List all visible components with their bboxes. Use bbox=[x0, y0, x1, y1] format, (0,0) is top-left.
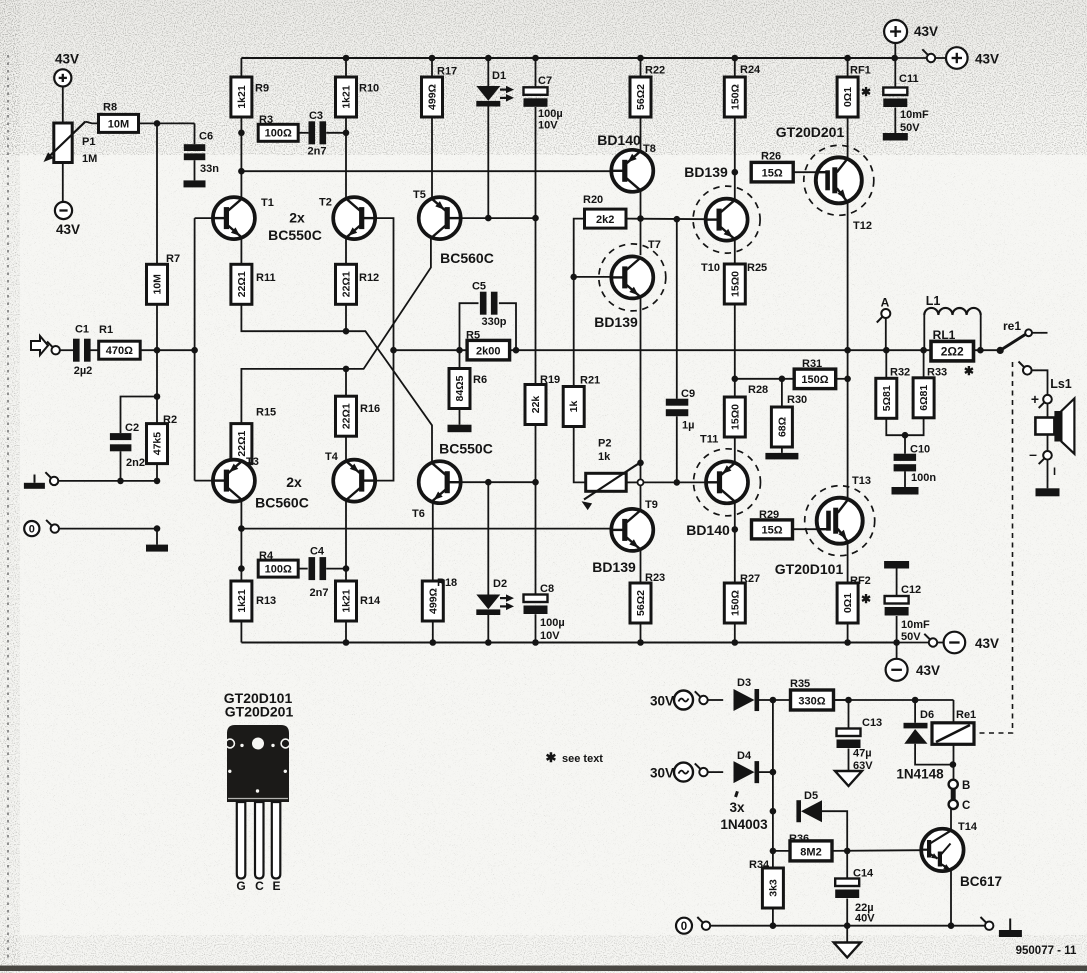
junction R26 left bbox=[732, 169, 739, 176]
connector Ls1 plus bbox=[1039, 395, 1052, 408]
svg-text:T1: T1 bbox=[261, 197, 274, 209]
wire rail to -43V connector bbox=[897, 642, 929, 644]
junction D1 T5 base bbox=[485, 215, 492, 222]
svg-text:R2: R2 bbox=[163, 414, 177, 426]
wire feedback row left bbox=[394, 349, 468, 351]
connector test point A bbox=[877, 309, 891, 323]
junction rail R17 bbox=[429, 55, 436, 62]
junction C8 rail bbox=[532, 639, 539, 646]
wire R29 to T13 gate bbox=[793, 528, 818, 530]
svg-text:BD140: BD140 bbox=[686, 522, 730, 538]
resistor R35 bbox=[791, 690, 834, 710]
svg-text:150Ω: 150Ω bbox=[729, 84, 741, 110]
svg-text:+: + bbox=[1031, 391, 1039, 407]
wire rail to RF1 bbox=[847, 58, 849, 77]
junction R23 rail bbox=[637, 639, 644, 646]
connector +43V bbox=[922, 49, 935, 62]
svg-text:1k21: 1k21 bbox=[341, 589, 353, 613]
svg-text:BD140: BD140 bbox=[597, 132, 641, 148]
connector 0 bottom bbox=[697, 917, 710, 930]
wire R15 to T3 emitter bbox=[240, 460, 242, 464]
wire rail to R22 bbox=[640, 58, 642, 77]
loudspeaker Ls1 symbol bbox=[1035, 399, 1074, 454]
wire to R35 row bbox=[773, 699, 849, 701]
power +43V symbol top-left bbox=[54, 69, 71, 86]
svg-text:15Ω0: 15Ω0 bbox=[729, 271, 741, 297]
junction R32/R33 to C10 bbox=[902, 432, 909, 439]
svg-text:1k: 1k bbox=[568, 401, 580, 413]
junction rail R24 bbox=[732, 55, 739, 62]
svg-text:22Ω1: 22Ω1 bbox=[341, 403, 353, 429]
svg-text:T5: T5 bbox=[413, 189, 426, 201]
wire C6 to ground bbox=[194, 160, 196, 180]
junction D3/D4 column top bbox=[770, 697, 777, 704]
wire C2 to return row bbox=[120, 451, 122, 481]
svg-text:D4: D4 bbox=[737, 750, 752, 762]
IGBT T12 bbox=[816, 157, 862, 203]
wire C5 right down bbox=[499, 303, 516, 350]
ground triangle under C13 bbox=[835, 771, 862, 786]
ground under R30 bbox=[765, 453, 798, 460]
wire T2 emitter to R12 bbox=[345, 239, 347, 265]
svg-text:R7: R7 bbox=[166, 253, 180, 265]
svg-text:R35: R35 bbox=[790, 678, 810, 690]
resistor R3 bbox=[258, 124, 298, 141]
svg-text:BD139: BD139 bbox=[592, 559, 636, 575]
wire T12 emitter to output node bbox=[847, 203, 849, 350]
wire ground to C12 bbox=[896, 569, 898, 597]
wire A to output row bbox=[885, 318, 887, 350]
svg-text:22Ω1: 22Ω1 bbox=[236, 430, 248, 456]
wire R36 to T14 base bbox=[832, 849, 921, 852]
junction R19 T6 base bbox=[532, 479, 539, 486]
wire C10 to ground bbox=[904, 471, 906, 487]
wire T11 collector to R27 bbox=[734, 503, 736, 583]
svg-text:R31: R31 bbox=[802, 358, 822, 370]
svg-text:✱: ✱ bbox=[861, 592, 871, 606]
wire Ls1 top bbox=[1032, 370, 1048, 394]
junction rail C7 bbox=[532, 55, 539, 62]
svg-text:C11: C11 bbox=[899, 73, 919, 85]
svg-text:22Ω1: 22Ω1 bbox=[341, 271, 353, 297]
wire D1 to T5 base node bbox=[487, 107, 489, 219]
svg-text:R27: R27 bbox=[740, 573, 760, 585]
wire R25 to R28 bbox=[734, 304, 736, 397]
junction rail R22 bbox=[637, 55, 644, 62]
svg-text:BC560C: BC560C bbox=[255, 495, 309, 511]
svg-text:D3: D3 bbox=[737, 677, 751, 689]
wire to R30 bbox=[781, 379, 783, 407]
resistor R33 bbox=[913, 378, 934, 418]
svg-text:5Ω81: 5Ω81 bbox=[881, 385, 893, 411]
wire R12 to row1 bbox=[345, 304, 347, 331]
wire row1 to T6 collector bbox=[241, 304, 432, 461]
ground under 0 line bbox=[146, 545, 168, 552]
AC source 30V lower bbox=[674, 763, 693, 782]
wire stub +43V bbox=[894, 44, 896, 59]
svg-text:C12: C12 bbox=[901, 584, 921, 596]
svg-text:C: C bbox=[255, 879, 264, 893]
transistor T4 bbox=[333, 460, 375, 502]
wire junction to R33 bbox=[923, 350, 925, 378]
tiny mark above 3x bbox=[734, 791, 739, 798]
svg-text:T3: T3 bbox=[246, 456, 259, 468]
transistor T11 bbox=[706, 461, 748, 503]
transistor T9 bbox=[611, 509, 653, 551]
wire T1 base to T3 base column bbox=[194, 218, 196, 481]
capacitor C3 bbox=[309, 121, 327, 144]
resistor R1 bbox=[99, 341, 141, 359]
svg-text:BC560C: BC560C bbox=[440, 250, 494, 266]
wire row2 to T5 bbox=[241, 239, 431, 424]
svg-text:BD139: BD139 bbox=[594, 314, 638, 330]
resistor R6 bbox=[449, 369, 470, 409]
wire R5 node to R6 bbox=[459, 350, 461, 368]
svg-text:22k: 22k bbox=[530, 396, 542, 414]
wire C3 to R10 node bbox=[326, 132, 346, 134]
capacitor C9 bbox=[666, 399, 689, 417]
resistor RL1 bbox=[931, 341, 974, 361]
ground under Ls1 bbox=[1036, 488, 1060, 496]
diode D6 bbox=[904, 723, 928, 744]
capacitor C13 bbox=[837, 729, 861, 749]
connector B bbox=[949, 780, 958, 789]
resistor R31 bbox=[794, 369, 836, 389]
wire P2 row to T11 base bbox=[644, 481, 706, 483]
svg-text:C6: C6 bbox=[199, 131, 213, 143]
svg-text:1k: 1k bbox=[598, 451, 611, 463]
svg-text:50V: 50V bbox=[901, 631, 921, 643]
transistor T6 bbox=[419, 461, 461, 503]
junction rail RF1 bbox=[844, 55, 851, 62]
wire output row right section bbox=[886, 349, 1000, 351]
svg-text:0: 0 bbox=[681, 921, 687, 933]
junction C13 top bbox=[845, 697, 852, 704]
svg-text:84Ω5: 84Ω5 bbox=[454, 375, 466, 401]
resistor R13 bbox=[231, 581, 252, 621]
junction R25/R28/R31 row bbox=[732, 376, 739, 383]
wire rail to C11 bbox=[894, 58, 896, 88]
svg-text:C7: C7 bbox=[538, 75, 552, 87]
svg-text:330p: 330p bbox=[481, 316, 506, 328]
wire C8 to rail bbox=[535, 614, 537, 642]
svg-text:T6: T6 bbox=[412, 508, 425, 520]
wire to T7 base bbox=[574, 276, 613, 278]
junction C12 rail bbox=[893, 639, 900, 646]
svg-text:1k21: 1k21 bbox=[236, 589, 248, 613]
ground under C6 bbox=[184, 180, 206, 187]
wire to C13 bbox=[848, 700, 850, 729]
capacitor C11 bbox=[883, 88, 907, 108]
junction R36/R34 bbox=[770, 848, 777, 855]
resistor R30 bbox=[771, 407, 792, 447]
svg-text:–: – bbox=[1029, 446, 1037, 462]
wire stub -43V below bbox=[896, 643, 898, 659]
capacitor C2 bbox=[110, 433, 131, 451]
svg-text:10V: 10V bbox=[540, 630, 560, 642]
ground under R6 bbox=[448, 425, 472, 433]
connector 0 line bbox=[46, 520, 59, 533]
junction R8/R7 node bbox=[154, 120, 161, 127]
junction C14 top bbox=[844, 848, 851, 855]
junction T7 base bbox=[570, 274, 577, 281]
transistor T2 bbox=[333, 197, 375, 239]
power -43V symbol below C12 bbox=[886, 659, 908, 681]
ground under C10 bbox=[892, 487, 919, 495]
wire C7 down bbox=[535, 107, 537, 218]
svg-text:A: A bbox=[881, 296, 890, 310]
svg-text:C4: C4 bbox=[310, 546, 325, 558]
svg-text:BD139: BD139 bbox=[684, 164, 728, 180]
junction C9 top bbox=[674, 216, 681, 223]
wire bottom 0 row bbox=[710, 925, 989, 927]
junction rail R10 bbox=[343, 55, 350, 62]
svg-text:1N4148: 1N4148 bbox=[896, 767, 944, 782]
svg-text:100µ: 100µ bbox=[540, 617, 565, 629]
junction D5 column bbox=[770, 808, 777, 815]
svg-text:R8: R8 bbox=[103, 102, 117, 114]
capacitor C10 bbox=[894, 454, 917, 472]
wire R18 to rail bbox=[432, 621, 434, 643]
AC source 30V upper bbox=[674, 691, 693, 710]
junction input node R7/R2 bbox=[154, 347, 161, 354]
input arrow symbol bbox=[31, 336, 48, 355]
svg-text:33n: 33n bbox=[200, 163, 219, 175]
resistor R10 bbox=[336, 77, 357, 117]
svg-text:R12: R12 bbox=[359, 272, 379, 284]
wire R7 to input node bbox=[156, 304, 158, 350]
svg-text:15Ω0: 15Ω0 bbox=[729, 404, 741, 430]
IGBT T13 bbox=[817, 498, 863, 544]
svg-text:43V: 43V bbox=[975, 52, 999, 67]
resistor R19 bbox=[525, 385, 546, 425]
wire R9 to T1 collector bbox=[240, 117, 242, 198]
resistor R9 bbox=[231, 77, 252, 117]
svg-text:R13: R13 bbox=[256, 595, 276, 607]
svg-text:R18: R18 bbox=[437, 577, 457, 589]
svg-text:R29: R29 bbox=[759, 509, 779, 521]
svg-text:C14: C14 bbox=[853, 868, 874, 880]
svg-text:R25: R25 bbox=[747, 262, 767, 274]
wire P1 wiper to R8 bbox=[85, 122, 99, 124]
svg-text:D5: D5 bbox=[804, 790, 818, 802]
wire to C2 bbox=[121, 397, 158, 434]
wire to D3 bbox=[708, 699, 723, 701]
wire to ground triangle bbox=[846, 926, 848, 943]
svg-text:R23: R23 bbox=[645, 572, 665, 584]
ground symbol bottom right bbox=[999, 919, 1022, 938]
svg-text:2n2: 2n2 bbox=[126, 457, 145, 469]
svg-text:R1: R1 bbox=[99, 324, 113, 336]
svg-text:R9: R9 bbox=[255, 83, 269, 95]
wire R1 to input node bbox=[140, 349, 194, 351]
junction D4 column bbox=[770, 769, 777, 776]
svg-text:R10: R10 bbox=[359, 83, 379, 95]
svg-text:GT20D201: GT20D201 bbox=[225, 704, 294, 720]
svg-text:C8: C8 bbox=[540, 583, 554, 595]
wire R16 to T4 emitter bbox=[345, 436, 347, 460]
wire C12 to rail bbox=[896, 616, 898, 643]
wire R2 down bbox=[156, 464, 158, 481]
wire R35 to relay bbox=[834, 699, 954, 701]
junction R9/R3 bbox=[238, 130, 245, 137]
wire row to R31 bbox=[735, 378, 794, 380]
svg-text:100µ: 100µ bbox=[538, 108, 563, 120]
svg-text:43V: 43V bbox=[975, 636, 999, 651]
svg-text:C: C bbox=[962, 800, 970, 812]
svg-text:L1: L1 bbox=[926, 294, 941, 308]
svg-text:R24: R24 bbox=[740, 64, 761, 76]
terminal 0 bottom bbox=[676, 918, 692, 934]
transistor T8 bbox=[611, 150, 653, 192]
svg-text:R34: R34 bbox=[749, 859, 770, 871]
transistor T3 bbox=[213, 460, 255, 502]
svg-text:✱: ✱ bbox=[861, 85, 871, 99]
svg-text:RF2: RF2 bbox=[850, 575, 871, 587]
svg-text:R15: R15 bbox=[256, 407, 276, 419]
capacitor C14 bbox=[835, 879, 859, 899]
wire connector to -43V bbox=[938, 642, 944, 644]
dashed relay actuation line bbox=[976, 362, 1013, 733]
diode D4 bbox=[734, 761, 760, 783]
wire R20 right to T10 base bbox=[626, 218, 706, 221]
resistor R7 bbox=[147, 264, 168, 304]
svg-text:T10: T10 bbox=[701, 262, 720, 274]
svg-text:950077 - 11: 950077 - 11 bbox=[1016, 945, 1077, 957]
junction R14/C4 bbox=[343, 565, 350, 572]
junction T3 collector to T9 base row bbox=[238, 525, 245, 532]
junction D2 rail bbox=[485, 639, 492, 646]
svg-text:T4: T4 bbox=[325, 451, 339, 463]
junction R2/C2 stub bbox=[154, 393, 161, 400]
wire R34 to 0 row bbox=[772, 908, 774, 926]
junction R30 top bbox=[779, 376, 786, 383]
svg-text:150Ω: 150Ω bbox=[801, 374, 828, 386]
connector Ls1 minus bbox=[1039, 451, 1052, 464]
connector -43V bbox=[924, 634, 937, 647]
wire rail to R17 bbox=[431, 58, 433, 77]
svg-text:R22: R22 bbox=[645, 65, 665, 77]
svg-text:63V: 63V bbox=[853, 760, 873, 772]
wire R33 bottom bbox=[905, 418, 924, 435]
capacitor C7 bbox=[524, 87, 548, 107]
svg-text:10M: 10M bbox=[108, 118, 129, 130]
svg-text:100Ω: 100Ω bbox=[265, 563, 292, 575]
dashed heatsink circle T13 bbox=[805, 486, 875, 556]
wire to D4 bbox=[708, 771, 723, 773]
wire R20 left down bbox=[574, 219, 585, 387]
svg-text:499Ω: 499Ω bbox=[427, 84, 439, 110]
wire T5 base row bbox=[460, 217, 535, 219]
svg-text:D1: D1 bbox=[492, 70, 506, 82]
svg-text:E: E bbox=[272, 879, 280, 893]
svg-text:B: B bbox=[962, 780, 970, 792]
wire T13 emitter to RF2 bbox=[847, 544, 849, 583]
wire C to T14 collector bbox=[950, 809, 952, 829]
wire C9 column bbox=[676, 219, 678, 399]
svg-text:T7: T7 bbox=[648, 239, 661, 251]
svg-text:Re1: Re1 bbox=[956, 709, 976, 721]
wire down to C6 bbox=[194, 123, 196, 144]
wire to C10 bbox=[904, 435, 906, 454]
svg-text:C2: C2 bbox=[125, 422, 139, 434]
wire RF1 to T12 bbox=[847, 117, 849, 158]
svg-text:G: G bbox=[236, 879, 245, 893]
resistor R34 bbox=[762, 868, 783, 908]
dashed heatsink circle T11 bbox=[694, 449, 761, 516]
wire D4 to column bbox=[759, 771, 773, 773]
junction R29 left bbox=[732, 526, 739, 533]
transistor T14 darlington BC617 bbox=[921, 829, 963, 871]
wire D3 to node bbox=[759, 699, 773, 701]
svg-text:T2: T2 bbox=[319, 197, 332, 209]
wire connector to +43V bbox=[936, 57, 947, 59]
svg-text:R5: R5 bbox=[466, 330, 480, 342]
resistor R28 bbox=[724, 397, 745, 437]
relay coil Re1 bbox=[932, 723, 974, 745]
wire R6 to ground bbox=[459, 409, 461, 425]
svg-text:R11: R11 bbox=[256, 272, 276, 284]
resistor R27 bbox=[724, 583, 745, 623]
connector bottom right bbox=[981, 917, 994, 930]
svg-text:R16: R16 bbox=[360, 403, 380, 415]
resistor R25 bbox=[724, 264, 745, 304]
wire T6 base node to D2 bbox=[487, 482, 489, 594]
connector C bbox=[949, 800, 958, 809]
svg-text:GT20D201: GT20D201 bbox=[776, 124, 845, 140]
svg-text:30V: 30V bbox=[650, 766, 674, 781]
wire rail to D1 bbox=[487, 58, 489, 86]
transistor T10 bbox=[706, 199, 748, 241]
wire R27 to rail bbox=[734, 623, 736, 643]
svg-text:R26: R26 bbox=[761, 151, 781, 163]
ground under C11 bbox=[883, 133, 908, 141]
svg-text:✱: ✱ bbox=[964, 364, 974, 378]
resistor R17 bbox=[422, 77, 443, 117]
svg-text:43V: 43V bbox=[914, 24, 938, 39]
ground above C12 bbox=[884, 561, 909, 569]
wire R13 to rail bbox=[240, 621, 242, 643]
svg-text:1k21: 1k21 bbox=[341, 85, 353, 109]
junction T1 collector row bbox=[238, 168, 245, 175]
wire T3 collector down bbox=[240, 501, 242, 581]
resistor R11 bbox=[231, 264, 252, 304]
wire to Re1 coil bbox=[953, 700, 955, 723]
junction R10/C3/T2 collector bbox=[343, 130, 350, 137]
wire R31 to output column bbox=[836, 378, 848, 380]
junction RL1/L1 right bbox=[977, 347, 984, 354]
LED D2 bbox=[476, 594, 514, 615]
wire rail to R24 bbox=[734, 58, 736, 77]
svg-text:see text: see text bbox=[562, 753, 603, 765]
wire +43V top rail bbox=[241, 57, 894, 59]
svg-text:D6: D6 bbox=[920, 709, 934, 721]
svg-text:100n: 100n bbox=[911, 472, 936, 484]
svg-text:RL1: RL1 bbox=[933, 328, 956, 342]
wire C1 to R1 bbox=[91, 349, 99, 351]
svg-text:R17: R17 bbox=[437, 66, 457, 78]
wire R26 to T12 gate bbox=[793, 171, 816, 173]
svg-text:30V: 30V bbox=[650, 694, 674, 709]
svg-text:T12: T12 bbox=[853, 220, 872, 232]
LED D1 bbox=[476, 86, 514, 107]
connector input return bbox=[45, 472, 58, 485]
svg-text:GT20D101: GT20D101 bbox=[775, 561, 844, 577]
svg-text:C9: C9 bbox=[681, 388, 695, 400]
wire T7 emitter down bbox=[640, 298, 642, 463]
jumper link B-C bbox=[951, 789, 956, 799]
wire -43V bottom rail bbox=[241, 642, 896, 644]
